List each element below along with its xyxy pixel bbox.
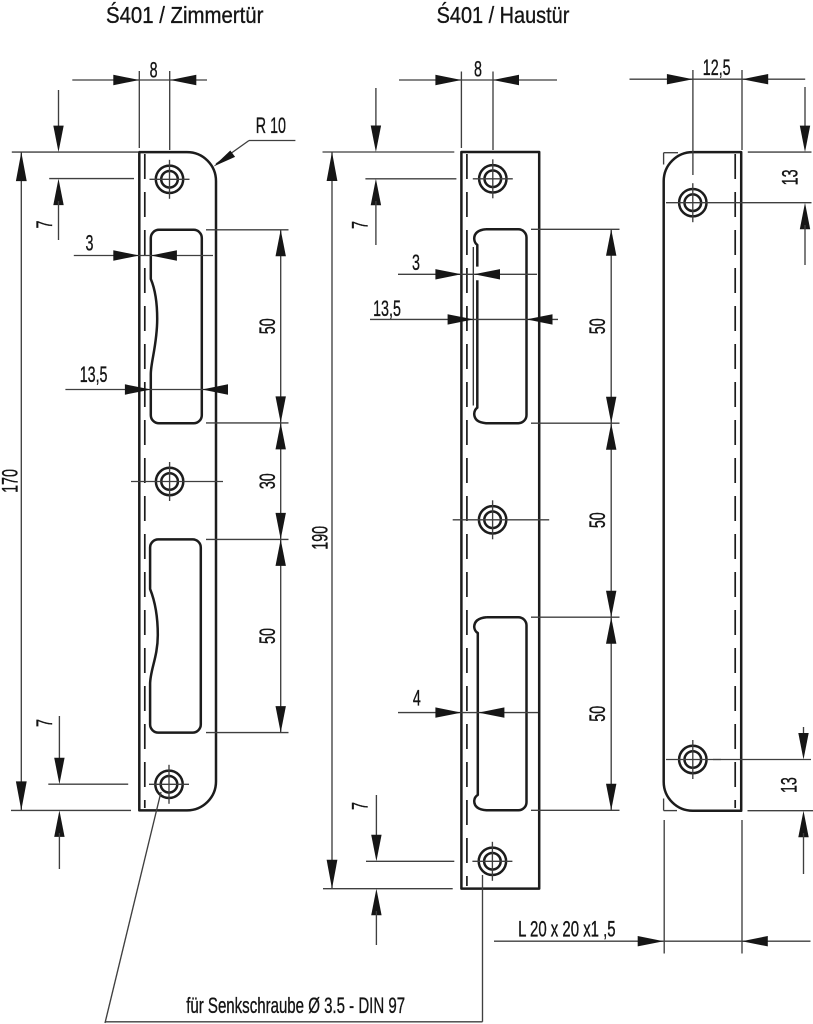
svg-text:190: 190 (307, 526, 332, 550)
svg-text:8: 8 (150, 57, 158, 82)
svg-text:7: 7 (32, 221, 57, 229)
dimension 3 plate1 (74, 230, 213, 260)
dimension 7 plate2 bottom (347, 795, 454, 945)
label R10 with leader (214, 113, 296, 167)
dimension 7 plate1 top (12, 90, 138, 240)
dimension 7 plate2 top (323, 88, 457, 245)
plate 3 outline (664, 152, 742, 811)
plate 1 screw hole top (150, 160, 190, 199)
plate 1 latch slot (151, 230, 202, 423)
plate 2 deadbolt slot (474, 617, 526, 810)
dimension column 50/30/50 plate1 (206, 230, 289, 733)
svg-text:4: 4 (413, 685, 421, 710)
svg-text:7: 7 (32, 719, 57, 727)
dimension 4 plate2 (398, 685, 538, 717)
plate 3 phantom corner top-left (664, 153, 678, 165)
plate 1 screw hole middle (131, 462, 223, 501)
plate 2 screw hole top (473, 159, 513, 198)
plate 2 screw hole bottom (472, 842, 512, 881)
dimension 7 plate1 bottom (11, 716, 131, 869)
dimension 13 plate3 top (721, 87, 812, 265)
plate 1 outline (139, 152, 216, 810)
leader from plate2 bottom hole (482, 875, 484, 1022)
svg-text:50: 50 (255, 628, 280, 644)
plate 2 outline (461, 152, 539, 889)
plate 3 screw hole top (666, 183, 721, 222)
svg-text:7: 7 (347, 221, 372, 229)
svg-text:12,5: 12,5 (703, 55, 731, 80)
svg-text:13: 13 (776, 777, 801, 793)
plate 2 hidden fold line (466, 154, 468, 886)
svg-text:3: 3 (412, 250, 420, 275)
leader from plate1 bottom hole (105, 792, 161, 1023)
dimension 12,5 plate3 (630, 55, 806, 175)
plate 3 phantom corner bottom-left (664, 799, 677, 811)
dimension column 50/50/50 plate2 (531, 229, 620, 810)
svg-text:L 20 x 20 x1 ,5: L 20 x 20 x1 ,5 (518, 917, 616, 942)
svg-text:13: 13 (777, 169, 802, 185)
title Zimmertuer (106, 2, 263, 29)
svg-text:50: 50 (255, 318, 280, 334)
note text Senkschraube (186, 993, 405, 1018)
dimension 190 plate2 (307, 152, 452, 889)
dimension 170 plate1 (0, 152, 27, 810)
dimension 13 plate3 bottom (713, 727, 813, 874)
plate 1 deadbolt slot (150, 539, 201, 732)
svg-text:13,5: 13,5 (80, 362, 108, 387)
plate 3 hidden fold line (734, 154, 736, 808)
plate 1 hidden fold line (144, 154, 146, 808)
dimension 8 plate2 (399, 56, 557, 150)
svg-text:R 10: R 10 (256, 113, 286, 138)
svg-text:Ś401 / Haustür: Ś401 / Haustür (437, 2, 570, 29)
svg-text:50: 50 (585, 318, 610, 334)
plate 3 screw hole bottom (666, 740, 721, 779)
svg-text:30: 30 (255, 473, 280, 489)
dimension 13,5 plate2 (370, 296, 558, 325)
svg-text:7: 7 (347, 802, 372, 810)
plate 2 latch slot (474, 229, 526, 423)
svg-text:50: 50 (585, 706, 610, 722)
dimension 13,5 plate1 (65, 362, 228, 395)
svg-text:Ś401 / Zimmertür: Ś401 / Zimmertür (106, 2, 263, 29)
svg-text:13,5: 13,5 (373, 296, 401, 321)
plate 2 latch slot lead-in edge (472, 247, 474, 406)
plate 1 screw hole bottom (149, 765, 189, 804)
note underline (105, 1021, 483, 1023)
svg-text:8: 8 (474, 56, 482, 81)
svg-text:für Senkschraube Ø 3.5 - DIN 9: für Senkschraube Ø 3.5 - DIN 97 (186, 993, 405, 1018)
dimension L 20 x 20 x 1,5 (494, 820, 811, 954)
title Haustuer (437, 2, 570, 29)
svg-text:3: 3 (86, 230, 94, 255)
svg-text:50: 50 (585, 512, 610, 528)
dimension 8 plate1 (72, 57, 207, 150)
plate 2 screw hole middle (453, 500, 550, 539)
svg-text:170: 170 (0, 469, 22, 493)
dimension 3 plate2 (398, 250, 537, 280)
